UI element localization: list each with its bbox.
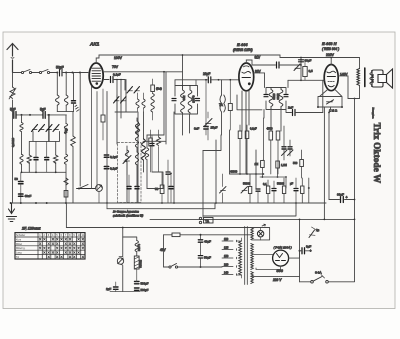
resistor box x=150.5 bbox=[149, 138, 153, 146]
svg-text:150: 150 bbox=[224, 254, 229, 258]
tube E444 cathode drops bbox=[242, 91, 249, 174]
svg-text:50: 50 bbox=[15, 177, 19, 181]
capacitor 88pF bbox=[299, 60, 304, 62]
svg-text:AK1: AK1 bbox=[89, 42, 100, 47]
node junctions on antenna wire bbox=[72, 72, 74, 74]
svg-text:Mittel: Mittel bbox=[16, 243, 22, 246]
capacitor x=152 bbox=[150, 144, 154, 146]
IF2 secondary coil bbox=[279, 88, 283, 110]
resistor box x=103 bbox=[101, 115, 105, 122]
capacitor 0,1uF right of AK1 bbox=[103, 80, 125, 91]
resistor box x=66 bbox=[64, 191, 68, 198]
capacitor x=296 low bbox=[294, 189, 298, 191]
svg-text:0,1: 0,1 bbox=[263, 182, 267, 186]
100V rail y=55 bbox=[99, 54, 280, 56]
resistor box x=301.5 lower row bbox=[300, 160, 304, 167]
svg-text:40000: 40000 bbox=[230, 170, 238, 174]
tube AK1 bbox=[89, 63, 103, 88]
speaker coil connection bbox=[371, 71, 373, 87]
wire x=164 screen drop bbox=[163, 72, 165, 135]
vertical x=163.5 bbox=[163, 235, 165, 267]
oscillator coil x=137 lower bbox=[135, 152, 138, 165]
junction x=308.8 bbox=[308, 187, 310, 189]
vertical x=216 bbox=[215, 140, 217, 203]
resistor box x=240 top bbox=[238, 131, 242, 139]
vertical x=107 bbox=[106, 92, 108, 204]
svg-text:0,5: 0,5 bbox=[309, 69, 314, 73]
electrolytic 8uF bbox=[300, 250, 310, 252]
svg-text:0,035: 0,035 bbox=[192, 96, 196, 104]
rectifier tube 506 bbox=[273, 250, 289, 266]
capacitor blob x=73.5 bbox=[73, 73, 75, 101]
resistor box 50000 hatched bbox=[134, 256, 139, 269]
capacitor x=258 low bbox=[256, 189, 260, 191]
svg-text:0,1µF: 0,1µF bbox=[110, 155, 118, 159]
dial lamp loop bbox=[252, 228, 270, 240]
svg-text:110: 110 bbox=[224, 237, 229, 241]
resistor box x=247 top bbox=[245, 131, 249, 139]
trimmer pair lower (114-123,97-103) bbox=[114, 97, 127, 104]
heater return wire y=227.5 bbox=[66, 203, 251, 228]
svg-text:0,1µF: 0,1µF bbox=[110, 167, 118, 171]
wave-change switch lever bbox=[77, 188, 96, 190]
svg-text:(5m): (5m) bbox=[156, 87, 162, 91]
verticals below cathode bbox=[324, 107, 330, 219]
grid resistor box 0,5M bbox=[303, 67, 307, 77]
voltage selector taps bbox=[222, 240, 237, 275]
wire E443H top to rail bbox=[330, 58, 332, 65]
svg-text:0,002: 0,002 bbox=[137, 244, 141, 251]
vertical x=203 with TA input bbox=[202, 151, 204, 217]
trimmer with arrow mid bbox=[205, 119, 213, 127]
vertical x=163 bbox=[152, 172, 163, 189]
filament feed wire bbox=[254, 254, 273, 256]
svg-text:600: 600 bbox=[64, 128, 68, 133]
wire y=65 with 1nF bbox=[252, 60, 301, 65]
coil L6 x=66 (600) bbox=[65, 115, 67, 124]
svg-text:Hornyphon: Hornyphon bbox=[372, 108, 375, 120]
tube E444 bbox=[239, 63, 254, 91]
resistor R-ant vertical zigzag bbox=[12, 73, 14, 115]
wire y=208.7 bbox=[107, 203, 215, 209]
svg-text:8µF: 8µF bbox=[306, 245, 311, 249]
wire IF2 bottom y=109.5 bbox=[264, 110, 281, 132]
svg-text:(RENS 1254): (RENS 1254) bbox=[233, 48, 253, 52]
verticals x=117 x=121 x=126 bbox=[117, 80, 126, 113]
wire AK1 top cap to 100V rail bbox=[96, 55, 99, 63]
pot diagonals mid bbox=[282, 150, 288, 156]
vertical x=256 bbox=[255, 150, 257, 188]
capacitor 5uF mid bbox=[43, 112, 45, 119]
antenna coil Lb x=66.2 bbox=[65, 73, 67, 96]
vertical x=91.5 tube cathode bbox=[91, 86, 93, 189]
oscillator main coil x=143 bbox=[143, 112, 145, 139]
antenna bbox=[7, 44, 18, 73]
wire band bus y=114.9 bbox=[16, 114, 66, 116]
antenna lead continues down bbox=[12, 115, 14, 203]
vertical x=229.5 bbox=[229, 130, 231, 174]
AVC wire y=174 bbox=[230, 173, 264, 175]
potentiometer 1M diagonal bbox=[327, 100, 334, 104]
wire antenna input y=72.5 bbox=[13, 72, 89, 74]
svg-text:0,0020: 0,0020 bbox=[11, 137, 15, 147]
svg-text:100V: 100V bbox=[114, 56, 123, 60]
filament return wire bbox=[256, 266, 281, 269]
trimmer capacitor bank (4 diagonal arrows) bbox=[48, 115, 50, 141]
capacitor blob x=46.7 bbox=[45, 158, 49, 160]
wire E444 top to 1nF line y=65 bbox=[246, 60, 252, 63]
svg-text:50: 50 bbox=[155, 187, 159, 191]
svg-text:E 444: E 444 bbox=[237, 42, 248, 47]
tone control vertical bbox=[122, 228, 124, 292]
resistor box x=270.8 bbox=[269, 131, 273, 140]
IF transformer 2 bbox=[266, 88, 286, 110]
svg-text:Schalter: Schalter bbox=[16, 234, 25, 237]
output transformer core bbox=[364, 68, 366, 87]
secondary 4V winding top bbox=[251, 228, 254, 240]
switch S2 bbox=[39, 70, 49, 74]
svg-text:+: + bbox=[310, 249, 312, 253]
wire 70V corner down x=166 bbox=[165, 72, 167, 144]
fuse bbox=[172, 233, 180, 237]
svg-text:50µF: 50µF bbox=[204, 256, 211, 260]
node dots on y=114.9 bbox=[21, 114, 23, 116]
IF2 side capacitor right bbox=[284, 95, 288, 97]
secondary rectifier filament winding bbox=[251, 272, 254, 284]
svg-text:3500: 3500 bbox=[272, 94, 276, 101]
antenna coil La x=57.3 bbox=[56, 73, 58, 96]
capacitor 50 blob under wire y=172.3 bbox=[19, 182, 24, 184]
rectifier anode wire to 8uF node bbox=[289, 251, 300, 258]
svg-text:70V: 70V bbox=[112, 65, 119, 69]
IF2 primary coil bbox=[269, 88, 273, 110]
resistor box M01 bbox=[228, 104, 232, 111]
IF transformer 1 bbox=[175, 86, 198, 115]
output transformer secondary bbox=[370, 73, 373, 85]
svg-text:500µF: 500µF bbox=[141, 288, 149, 292]
svg-text:81V: 81V bbox=[255, 56, 262, 60]
ground bus y=203 bbox=[11, 202, 326, 204]
coil L2 x=21.5 lower bbox=[20, 154, 23, 164]
wire y=112 bbox=[115, 112, 137, 118]
resistor box x=277.5 lower row bbox=[276, 161, 280, 168]
capacitor 2nF bbox=[293, 110, 296, 116]
oscillator dashed box bbox=[118, 143, 142, 203]
resistor box x=262 lower row bbox=[261, 161, 265, 168]
capacitor 4uF x=168 bbox=[166, 172, 170, 174]
resistor zigzag x=55.7 bbox=[55, 141, 57, 172]
resistor box x=278 bbox=[276, 131, 280, 140]
capacitor 20pF bbox=[208, 77, 211, 83]
svg-text:4500: 4500 bbox=[267, 127, 273, 131]
resistor small zigzag x=65 bbox=[64, 178, 68, 185]
svg-text:S-kA: S-kA bbox=[315, 271, 322, 275]
wire AK1 anode y=71.8 to IF1 bbox=[103, 71, 183, 73]
capacitor blob x=129 bbox=[127, 187, 131, 189]
coil Losc x=127 bbox=[126, 146, 128, 150]
cathode capacitor 0,1uF pair x=106.5 bbox=[104, 155, 108, 157]
tube E443H bbox=[324, 65, 338, 91]
resistor box x=268 low bbox=[266, 186, 269, 194]
vertical x=80.2 bbox=[79, 73, 81, 187]
svg-text:220: 220 bbox=[224, 263, 229, 267]
resistor box (5m) bbox=[151, 85, 155, 92]
svg-text:1µF: 1µF bbox=[106, 287, 111, 291]
IF transformer 1 feed from rail bbox=[182, 55, 184, 86]
output transformer primary bbox=[357, 69, 360, 86]
svg-text:2nF: 2nF bbox=[288, 106, 293, 110]
capacitor blobs x=284,290 bbox=[282, 147, 286, 149]
transformer core bbox=[245, 227, 248, 285]
vertical x=21.5 band coil column bbox=[21, 115, 23, 123]
svg-text:2µ: 2µ bbox=[316, 228, 320, 232]
svg-text:µF: µF bbox=[290, 182, 293, 186]
svg-text:( RES 964 ): ( RES 964 ) bbox=[322, 47, 339, 51]
svg-text:40nF: 40nF bbox=[25, 194, 32, 198]
tone coil 0,002 bbox=[123, 237, 137, 241]
vertical x=138 bbox=[137, 112, 139, 203]
transformer primary winding bbox=[239, 241, 242, 275]
lower row components: resistor box x=250 bbox=[248, 187, 251, 194]
svg-text:220V: 220V bbox=[326, 53, 335, 57]
svg-text:50pF: 50pF bbox=[56, 66, 64, 70]
vertical x=263.4 bbox=[262, 118, 264, 160]
capacitors 500uF pair bbox=[135, 282, 140, 284]
svg-text:Lang: Lang bbox=[16, 252, 22, 255]
svg-text:220 V: 220 V bbox=[272, 278, 282, 282]
anode wire to output transformer bbox=[338, 76, 348, 99]
grid coupling vertical x=301 bbox=[300, 58, 302, 81]
svg-text:E 443 H: E 443 H bbox=[322, 41, 337, 46]
svg-text:2F, 128amz: 2F, 128amz bbox=[21, 227, 41, 231]
svg-text:1,2M: 1,2M bbox=[281, 163, 287, 167]
dial lamp bbox=[257, 231, 263, 237]
mains feed wire y=234.8 bbox=[164, 234, 252, 236]
resistor zigzag x=158.5 bbox=[158, 130, 160, 172]
svg-text:gebräuchl. (ausführen W): gebräuchl. (ausführen W) bbox=[113, 213, 143, 217]
tone potentiometer bbox=[117, 258, 123, 264]
svg-text:Trix Oktode W: Trix Oktode W bbox=[372, 123, 382, 184]
capacitor 50pF bbox=[60, 69, 63, 76]
wire y=112.5 with 2nF cap to E443H cathode bbox=[237, 95, 262, 110]
wire IF1 bottom down bbox=[182, 114, 184, 135]
svg-text:500: 500 bbox=[182, 96, 186, 101]
trimmer diagonal near 301 bbox=[294, 64, 300, 71]
secondary HT winding bbox=[251, 244, 254, 270]
svg-text:500: 500 bbox=[293, 161, 298, 165]
vertical x=147 with coil bbox=[146, 135, 148, 148]
trimmer top right of lamp bbox=[309, 230, 315, 238]
TA terminals box bbox=[204, 218, 214, 224]
resistor box x=284 low bbox=[282, 186, 285, 194]
IF1 side capacitor left bbox=[172, 99, 176, 101]
svg-text:( PGN 1064 ): ( PGN 1064 ) bbox=[274, 246, 292, 250]
wire y=188.5 bbox=[147, 135, 164, 189]
osc coil pair x=137.5,143.5 bbox=[136, 99, 145, 108]
coil L1 x=21.5 upper bbox=[20, 123, 23, 132]
capacitor 50uF bbox=[198, 256, 202, 258]
grid wire y=80.3 to E443H bbox=[288, 79, 324, 81]
svg-text:0,1µF: 0,1µF bbox=[250, 127, 257, 131]
IF1 side capacitor right bbox=[196, 99, 200, 101]
oscillator coil x=137 upper bbox=[136, 118, 138, 121]
svg-text:20pF: 20pF bbox=[203, 72, 210, 76]
IF2 side capacitor left bbox=[264, 95, 268, 97]
electrolytic 30uF on y=199.5 bbox=[329, 199, 355, 201]
ground symbol bbox=[7, 203, 17, 222]
svg-text:5µF: 5µF bbox=[10, 108, 16, 112]
capacitor 40uF bbox=[200, 235, 202, 267]
svg-text:240: 240 bbox=[224, 271, 229, 275]
svg-text:+: + bbox=[346, 196, 348, 200]
switch S1 bbox=[21, 70, 31, 74]
mains switch bbox=[169, 266, 171, 268]
capacitor 40nF blob bbox=[19, 194, 24, 196]
svg-text:3nF: 3nF bbox=[194, 127, 199, 131]
coil x=138 upper bbox=[136, 123, 139, 135]
tone bottom wire bbox=[110, 291, 140, 293]
coil bottom wire y=111.6 bbox=[57, 111, 73, 113]
capacitor blob x=171 bbox=[169, 187, 173, 189]
svg-text:0,1µF: 0,1µF bbox=[113, 73, 121, 77]
speaker bbox=[372, 69, 393, 88]
IF1 secondary coil bbox=[188, 86, 192, 115]
resistor zigzag small x=76.5 bbox=[75, 105, 79, 111]
capacitor 25uF bbox=[204, 127, 208, 130]
svg-text:Mittel lg.: Mittel lg. bbox=[16, 247, 26, 250]
wire x=322.8 grid leak down bbox=[323, 80, 325, 112]
coil 7A bbox=[221, 80, 223, 95]
vertical x=299.5 bbox=[299, 219, 301, 281]
svg-text:TA: TA bbox=[16, 256, 19, 259]
wire under trimmers y=141.4 bbox=[33, 132, 60, 142]
mains switch wire y=267 bbox=[164, 266, 223, 268]
capacitor 5uF left bbox=[14, 112, 16, 119]
cathode network E443H bbox=[318, 90, 342, 107]
220V wire y=276.6 bbox=[252, 276, 300, 278]
svg-text:30µF: 30µF bbox=[337, 193, 344, 197]
coil L7 x=66 lower bbox=[64, 154, 67, 164]
switch table bbox=[15, 233, 85, 259]
right bus x=354.5 down bbox=[354, 99, 356, 282]
pot diagonals near y=190 middle bbox=[241, 187, 248, 194]
IF1 primary coil bbox=[181, 86, 185, 115]
svg-text:88pF: 88pF bbox=[305, 59, 312, 63]
resistor zigzag x=29.3 bbox=[29, 141, 33, 172]
svg-text:50000: 50000 bbox=[139, 260, 143, 268]
220V rail y=57.5 bbox=[280, 55, 360, 69]
capacitor x=274 low bbox=[272, 189, 276, 191]
anode wire y=72.9 bbox=[254, 72, 265, 74]
potentiometer circle bbox=[96, 185, 103, 192]
svg-text:Kurz: Kurz bbox=[16, 238, 22, 241]
wire y=150.5 bbox=[203, 135, 221, 151]
wire y=172.3 bbox=[22, 171, 67, 173]
resistor zigzag x=73 mid bbox=[72, 112, 74, 203]
node dots on antenna wire bbox=[56, 72, 58, 74]
svg-text:500µF: 500µF bbox=[141, 282, 149, 286]
svg-text:125: 125 bbox=[224, 246, 229, 250]
svg-text:50000: 50000 bbox=[243, 182, 251, 186]
resistor box 50 bbox=[160, 185, 164, 194]
svg-text:25µF: 25µF bbox=[211, 126, 218, 130]
trimmer pair upper (127-138,86-93) bbox=[127, 87, 140, 94]
transformer bottom wire bbox=[348, 86, 360, 99]
svg-text:48V: 48V bbox=[160, 248, 167, 252]
vertical x=117 bbox=[116, 95, 118, 144]
IF1 centre tap vertical bbox=[189, 114, 191, 133]
capacitor blob x=36 bbox=[34, 158, 38, 160]
wire y=216 bbox=[203, 203, 296, 216]
junction dots bbox=[170, 173, 172, 175]
long wire y=219.4 bbox=[150, 218, 355, 220]
capacitor 1uF bottom bbox=[114, 287, 119, 289]
arrows on lamp wire bbox=[262, 224, 266, 226]
svg-text:2× Gruppe Apparaten: 2× Gruppe Apparaten bbox=[112, 210, 139, 214]
IF transformer 2 connections bbox=[265, 73, 289, 88]
svg-text:3500: 3500 bbox=[276, 94, 280, 101]
trimmer inside dashed box bbox=[123, 156, 131, 164]
vertical x=174 bbox=[173, 112, 175, 203]
svg-text:5µF: 5µF bbox=[40, 108, 46, 112]
mains switch bottom right bbox=[300, 281, 355, 283]
wire y=177 bbox=[260, 176, 286, 178]
svg-text:50000: 50000 bbox=[277, 182, 285, 186]
capacitor blob x=137 lower2 bbox=[135, 187, 139, 189]
capacitor 1nF bbox=[277, 62, 280, 68]
svg-text:40µF: 40µF bbox=[204, 240, 211, 244]
resistor box x=302 low bbox=[301, 186, 304, 194]
grid wire y=79.3 to E444 bbox=[175, 79, 239, 81]
